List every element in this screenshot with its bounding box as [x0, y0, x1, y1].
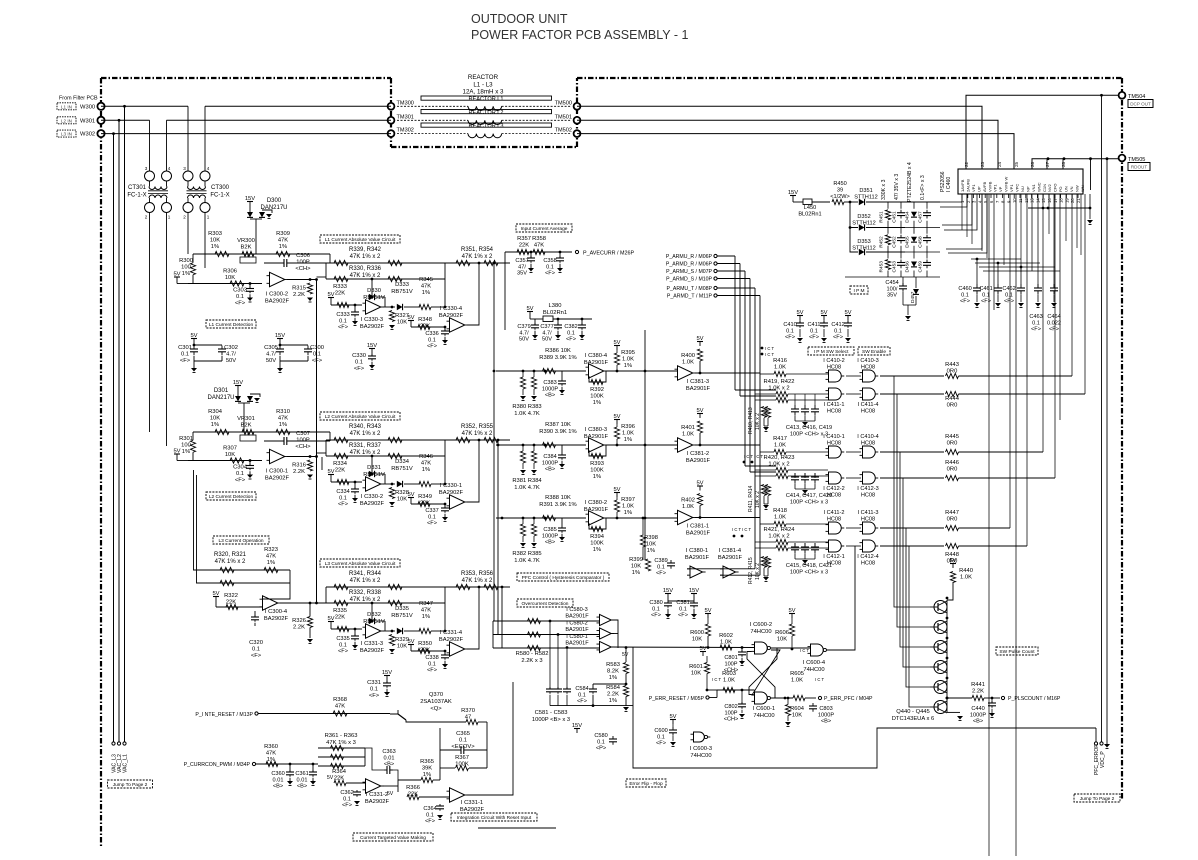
svg-text:C410: C410	[783, 322, 796, 328]
svg-text:22K: 22K	[420, 501, 430, 507]
svg-text:10K: 10K	[397, 644, 407, 650]
svg-text:R326: R326	[292, 618, 306, 624]
svg-text:10K: 10K	[210, 416, 220, 422]
svg-text:1000P: 1000P	[970, 712, 986, 718]
svg-text:I C331-1: I C331-1	[461, 800, 483, 806]
svg-text:R411, R414: R411, R414	[748, 485, 754, 512]
svg-text:1%: 1%	[279, 422, 287, 428]
svg-text:C389: C389	[654, 558, 667, 564]
svg-text:R331, R337: R331, R337	[349, 443, 382, 449]
svg-text:I C412-4: I C412-4	[857, 554, 878, 560]
svg-text:50V: 50V	[519, 337, 529, 343]
svg-text:R446: R446	[945, 460, 959, 466]
svg-text:R420, R423: R420, R423	[764, 455, 795, 461]
svg-text:1.0K 4.7K: 1.0K 4.7K	[514, 485, 540, 491]
svg-text:1%: 1%	[267, 560, 275, 566]
svg-text:2AUFB: 2AUFB	[965, 179, 970, 192]
svg-text:22K: 22K	[420, 648, 430, 654]
svg-text:C453: C453	[892, 261, 898, 273]
svg-text:D335: D335	[395, 606, 409, 612]
svg-text:TM300: TM300	[397, 100, 414, 106]
svg-text:TM301: TM301	[397, 114, 414, 120]
svg-text:P_ARMD_T / M11P: P_ARMD_T / M11P	[667, 294, 713, 300]
svg-text:BA2901F: BA2901F	[686, 531, 711, 537]
svg-text:18: 18	[1059, 198, 1064, 203]
svg-text:BL02Rn1: BL02Rn1	[543, 310, 567, 316]
svg-text:C414, C417, C420: C414, C417, C420	[786, 493, 832, 499]
svg-text:47K: 47K	[421, 461, 431, 467]
svg-text:L450: L450	[804, 205, 816, 211]
svg-text:I C380-3: I C380-3	[585, 427, 607, 433]
svg-text:R397: R397	[621, 497, 635, 503]
svg-text:<B>: <B>	[973, 719, 983, 725]
svg-text:10K x 2: 10K x 2	[755, 491, 761, 508]
svg-text:47K 1% x 2: 47K 1% x 2	[350, 431, 381, 437]
svg-text:0.1: 0.1	[339, 495, 347, 501]
svg-text:R389 3.9K 1%: R389 3.9K 1%	[539, 355, 576, 361]
svg-text:BA2902F: BA2902F	[439, 490, 464, 496]
svg-text:CT301: CT301	[128, 185, 147, 191]
svg-text:Q370: Q370	[429, 692, 443, 698]
svg-text:330K x 3: 330K x 3	[881, 179, 887, 200]
svg-text:50V: 50V	[266, 358, 276, 364]
svg-text:1%: 1%	[593, 400, 601, 406]
svg-text:R452: R452	[879, 236, 885, 248]
svg-text:R419, R422: R419, R422	[764, 379, 795, 385]
svg-text:22K: 22K	[408, 792, 418, 798]
svg-text:R330, R336: R330, R336	[349, 266, 382, 272]
svg-text:I C330-4: I C330-4	[440, 306, 463, 312]
svg-text:4.7/: 4.7/	[266, 352, 276, 358]
svg-text:R450: R450	[833, 181, 846, 187]
svg-text:BA2901F: BA2901F	[686, 386, 711, 392]
svg-text:C415, C418, C421: C415, C418, C421	[786, 563, 832, 569]
svg-text:47K 1% x 2: 47K 1% x 2	[462, 578, 493, 584]
svg-text:R358: R358	[532, 236, 546, 242]
svg-text:<CH>: <CH>	[295, 444, 311, 450]
svg-text:4.7/: 4.7/	[542, 330, 552, 336]
svg-text:0.1: 0.1	[428, 661, 436, 667]
svg-text:R316: R316	[292, 463, 306, 469]
svg-text:15: 15	[1041, 198, 1046, 203]
svg-text:100/: 100/	[887, 286, 898, 292]
svg-text:L3 Current Operation: L3 Current Operation	[218, 538, 263, 544]
svg-text:C304: C304	[233, 465, 248, 471]
svg-text:<F>: <F>	[338, 649, 348, 655]
svg-text:C412: C412	[831, 322, 844, 328]
svg-text:1000P: 1000P	[542, 533, 558, 539]
svg-text:C383: C383	[543, 380, 556, 386]
svg-text:I C600-4: I C600-4	[803, 660, 826, 666]
svg-text:74HC00: 74HC00	[803, 667, 824, 673]
svg-text:0.1: 0.1	[339, 642, 347, 648]
svg-text:1000P <B> x 3: 1000P <B> x 3	[532, 717, 570, 723]
svg-text:VN1: VN1	[1031, 183, 1036, 192]
svg-text:C581 - C583: C581 - C583	[535, 710, 568, 716]
svg-text:100P <CH> x 3: 100P <CH> x 3	[790, 500, 828, 506]
svg-text:<F>: <F>	[312, 358, 323, 364]
svg-text:C338: C338	[425, 655, 438, 661]
svg-text:FO: FO	[1058, 186, 1063, 192]
svg-text:R392: R392	[590, 387, 604, 393]
svg-text:D330: D330	[367, 288, 381, 294]
svg-text:10K x 2: 10K x 2	[755, 563, 761, 580]
svg-text:I C600-3: I C600-3	[690, 746, 712, 752]
svg-text:2.2K: 2.2K	[293, 625, 305, 631]
svg-text:C462: C462	[1002, 286, 1015, 292]
svg-text:R399: R399	[629, 557, 643, 563]
svg-text:2.2K x 3: 2.2K x 3	[521, 658, 542, 664]
svg-text:R361 - R363: R361 - R363	[325, 733, 358, 739]
svg-text:PFC Control ( Hysteresis Compa: PFC Control ( Hysteresis Comparator )	[522, 575, 605, 581]
svg-text:C301: C301	[178, 345, 192, 351]
svg-text:1%: 1%	[423, 772, 431, 778]
svg-text:BA2901F: BA2901F	[685, 555, 710, 561]
svg-text:R334: R334	[333, 461, 348, 467]
svg-text:<CH>: <CH>	[724, 717, 739, 723]
svg-text:Input Current Average: Input Current Average	[521, 226, 568, 232]
svg-text:D454: D454	[905, 211, 911, 223]
svg-text:I C411-2: I C411-2	[823, 510, 844, 516]
svg-text:3: 3	[145, 166, 148, 171]
svg-text:C335: C335	[336, 636, 349, 642]
svg-text:C801: C801	[724, 655, 737, 661]
svg-text:R323: R323	[264, 547, 278, 553]
svg-text:<F>: <F>	[427, 668, 437, 674]
svg-text:R370: R370	[461, 708, 475, 714]
svg-text:R368: R368	[333, 697, 347, 703]
svg-text:NP: NP	[1025, 186, 1030, 192]
svg-text:R602: R602	[719, 633, 733, 639]
svg-text:1.0K: 1.0K	[723, 678, 735, 684]
svg-text:P_ARMD_R / M06P: P_ARMD_R / M06P	[666, 262, 713, 268]
svg-text:I C300-4: I C300-4	[265, 609, 288, 615]
svg-text:35V: 35V	[887, 293, 897, 299]
svg-text:1.0K: 1.0K	[622, 431, 634, 437]
svg-text:R603: R603	[722, 671, 736, 677]
svg-text:<Q>: <Q>	[430, 706, 442, 712]
svg-text:I C410-3: I C410-3	[857, 358, 878, 364]
svg-text:C302: C302	[224, 345, 238, 351]
svg-text:1%: 1%	[624, 363, 632, 369]
svg-text:HC08: HC08	[861, 516, 875, 522]
svg-text:UN: UN	[1064, 186, 1069, 192]
svg-text:P_CURRCON_PWM / M34P: P_CURRCON_PWM / M34P	[184, 762, 251, 768]
svg-text:1%: 1%	[211, 422, 219, 428]
svg-text:22K: 22K	[335, 291, 345, 297]
svg-text:REACTOR L3: REACTOR L3	[468, 124, 503, 130]
svg-text:C364: C364	[423, 806, 436, 812]
svg-text:<F>: <F>	[785, 335, 795, 341]
svg-text:C377: C377	[540, 324, 553, 330]
svg-text:VN: VN	[1069, 186, 1074, 192]
svg-text:12: 12	[1024, 198, 1029, 203]
svg-text:<F>: <F>	[235, 301, 246, 307]
svg-text:C385: C385	[543, 527, 556, 533]
svg-text:100K: 100K	[590, 468, 604, 474]
svg-text:26: 26	[1030, 161, 1035, 167]
svg-text:C454: C454	[885, 280, 898, 286]
svg-text:<F>: <F>	[425, 819, 435, 825]
svg-text:BA2902F: BA2902F	[264, 616, 289, 622]
svg-text:R307: R307	[223, 446, 237, 452]
svg-text:1.0K x 2: 1.0K x 2	[768, 462, 789, 468]
svg-text:R348: R348	[418, 317, 432, 323]
svg-text:R447: R447	[945, 510, 959, 516]
svg-text:<F>: <F>	[427, 344, 437, 350]
svg-text:R441: R441	[971, 682, 985, 688]
svg-text:<F>: <F>	[427, 521, 437, 527]
svg-text:VPC: VPC	[1015, 184, 1020, 192]
svg-text:1.0K 4.7K: 1.0K 4.7K	[514, 411, 540, 417]
svg-text:R322: R322	[224, 593, 238, 599]
svg-text:10: 10	[1012, 198, 1017, 203]
svg-text:W302: W302	[80, 132, 95, 138]
svg-text:22K: 22K	[334, 776, 344, 782]
svg-text:R353, R356: R353, R356	[461, 571, 494, 577]
svg-text:STTH112: STTH112	[852, 246, 876, 252]
svg-text:DAN217U: DAN217U	[207, 395, 234, 401]
svg-text:47K 1% x 2: 47K 1% x 2	[350, 450, 381, 456]
svg-text:47K 1% x 2: 47K 1% x 2	[350, 254, 381, 260]
svg-text:47: 47	[465, 715, 471, 721]
svg-text:C384: C384	[543, 454, 556, 460]
svg-text:1%: 1%	[422, 467, 430, 473]
svg-text:I C331-3: I C331-3	[361, 641, 383, 647]
svg-text:R332, R338: R332, R338	[349, 590, 382, 596]
svg-text:W300: W300	[80, 104, 95, 110]
svg-text:<F>: <F>	[809, 335, 819, 341]
svg-text:BA2901F: BA2901F	[565, 614, 589, 620]
svg-text:47K 1% x 2: 47K 1% x 2	[462, 431, 493, 437]
svg-text:SW Pulse Count: SW Pulse Count	[999, 649, 1035, 655]
svg-text:HC08: HC08	[861, 492, 875, 498]
svg-text:16: 16	[1047, 198, 1052, 203]
svg-text:74HC00: 74HC00	[750, 629, 771, 635]
svg-text:C461: C461	[979, 286, 992, 292]
svg-text:0.1: 0.1	[786, 328, 794, 334]
svg-text:NU: NU	[1020, 186, 1025, 192]
svg-text:R605: R605	[790, 671, 804, 677]
svg-text:I C600-1: I C600-1	[753, 706, 775, 712]
svg-text:R335: R335	[333, 608, 347, 614]
svg-text:11: 11	[1018, 198, 1023, 203]
svg-text:R320, R321: R320, R321	[214, 552, 247, 558]
svg-text:REACTOR: REACTOR	[468, 74, 499, 81]
svg-text:1%: 1%	[182, 271, 190, 277]
svg-text:0.01: 0.01	[297, 777, 308, 783]
svg-text:20: 20	[1070, 198, 1075, 203]
svg-text:C460: C460	[958, 286, 971, 292]
svg-text:C361: C361	[295, 771, 308, 777]
svg-text:I C412-1: I C412-1	[823, 554, 844, 560]
svg-text:47K 1% x 2: 47K 1% x 2	[350, 597, 381, 603]
svg-text:I P M SW Select: I P M SW Select	[814, 349, 849, 355]
svg-text:0.1: 0.1	[252, 647, 260, 653]
svg-text:39K: 39K	[422, 766, 432, 772]
svg-text:BA2902F: BA2902F	[365, 799, 390, 805]
svg-text:100P <CH> x 3: 100P <CH> x 3	[790, 570, 828, 576]
svg-text:BA2901F: BA2901F	[686, 458, 711, 464]
svg-text:I C412-2: I C412-2	[823, 486, 844, 492]
svg-text:1: 1	[168, 215, 171, 220]
svg-text:I C411-4: I C411-4	[857, 402, 878, 408]
svg-text:P_ARMU_T / M08P: P_ARMU_T / M08P	[667, 286, 713, 292]
svg-text:10K: 10K	[692, 637, 702, 643]
svg-text:10K: 10K	[225, 275, 235, 281]
svg-text:R402: R402	[681, 498, 695, 504]
svg-text:47/ 35V x 3: 47/ 35V x 3	[894, 174, 900, 200]
svg-text:C334: C334	[336, 489, 349, 495]
svg-text:R347: R347	[419, 601, 433, 607]
svg-text:R352, R355: R352, R355	[461, 424, 494, 430]
svg-text:STTH112: STTH112	[852, 221, 876, 227]
svg-text:<F>: <F>	[1004, 299, 1014, 305]
svg-text:1%: 1%	[422, 614, 430, 620]
svg-text:47/: 47/	[518, 264, 526, 270]
svg-text:AVFB: AVFB	[982, 182, 987, 192]
svg-text:0.1: 0.1	[657, 564, 665, 570]
svg-text:0.1: 0.1	[834, 328, 842, 334]
svg-text:24: 24	[997, 161, 1002, 167]
svg-text:TM502: TM502	[555, 128, 572, 134]
svg-text:<F>: <F>	[251, 653, 262, 659]
svg-text:0.1: 0.1	[961, 292, 969, 298]
svg-text:C452: C452	[892, 236, 898, 248]
svg-text:VP1: VP1	[993, 184, 998, 192]
svg-text:R340, R343: R340, R343	[349, 424, 382, 430]
svg-text:VP1: VP1	[971, 184, 976, 192]
svg-text:<P>: <P>	[596, 746, 606, 752]
svg-text:BA2902F: BA2902F	[360, 501, 385, 507]
svg-text:R366: R366	[406, 785, 420, 791]
svg-text:100: 100	[181, 265, 191, 271]
svg-text:3: 3	[183, 166, 186, 171]
svg-text:0.01: 0.01	[384, 755, 395, 761]
svg-text:I C T: I C T	[712, 677, 721, 682]
svg-text:VR301: VR301	[237, 416, 255, 422]
svg-text:22K: 22K	[519, 243, 529, 249]
svg-text:C600: C600	[654, 728, 667, 734]
svg-text:C464: C464	[1047, 314, 1060, 320]
svg-text:<F>: <F>	[577, 699, 587, 705]
svg-text:100P <CH> x 3: 100P <CH> x 3	[790, 432, 828, 438]
svg-text:C358: C358	[543, 258, 556, 264]
svg-text:L380: L380	[549, 303, 562, 309]
svg-text:BA2901F: BA2901F	[565, 627, 589, 633]
svg-text:BL02Rn1: BL02Rn1	[798, 212, 821, 218]
svg-text:R339, R342: R339, R342	[349, 247, 382, 253]
svg-text:I C330-3: I C330-3	[361, 317, 383, 323]
svg-text:47K: 47K	[266, 751, 276, 757]
svg-text:R357: R357	[517, 236, 531, 242]
svg-text:10K: 10K	[397, 320, 407, 326]
svg-text:5V: 5V	[327, 775, 334, 781]
svg-text:I C T: I C T	[815, 677, 824, 682]
svg-text:W301: W301	[80, 118, 95, 124]
svg-text:R453: R453	[879, 261, 885, 273]
svg-text:1.0K: 1.0K	[791, 678, 803, 684]
svg-text:10K: 10K	[646, 542, 656, 548]
svg-text:I C380-1: I C380-1	[686, 548, 708, 554]
svg-text:0.1: 0.1	[426, 812, 434, 818]
svg-text:R396: R396	[621, 424, 635, 430]
svg-text:R604: R604	[790, 706, 805, 712]
svg-text:<F>: <F>	[369, 693, 380, 699]
svg-text:BA2901F: BA2901F	[584, 507, 609, 513]
svg-text:50V: 50V	[226, 358, 236, 364]
svg-text:C365: C365	[456, 731, 470, 737]
svg-text:<F>: <F>	[960, 299, 970, 305]
svg-text:I C380-4: I C380-4	[585, 353, 608, 359]
svg-text:R349: R349	[418, 494, 432, 500]
svg-text:0.1: 0.1	[236, 471, 244, 477]
svg-text:BA2902F: BA2902F	[265, 476, 290, 482]
svg-text:VP: VP	[998, 186, 1003, 192]
svg-text:C330: C330	[352, 353, 366, 359]
svg-text:C580: C580	[594, 733, 607, 739]
svg-text:47K: 47K	[278, 238, 288, 244]
svg-text:I C460: I C460	[946, 177, 952, 192]
svg-text:P_ARMD_S / M10P: P_ARMD_S / M10P	[666, 277, 712, 283]
svg-text:R394: R394	[590, 534, 605, 540]
svg-text:R390 3.9K 1%: R390 3.9K 1%	[539, 429, 576, 435]
svg-text:R387 10K: R387 10K	[545, 422, 571, 428]
svg-text:C440: C440	[971, 706, 984, 712]
svg-text:0R0: 0R0	[947, 441, 958, 447]
svg-text:1%: 1%	[422, 290, 430, 296]
svg-text:VP1: VP1	[1009, 184, 1014, 192]
svg-text:C333: C333	[336, 312, 349, 318]
svg-text:C584: C584	[575, 686, 588, 692]
svg-text:R445: R445	[945, 434, 959, 440]
svg-text:1.0K: 1.0K	[960, 575, 972, 581]
svg-text:R418: R418	[773, 508, 787, 514]
svg-text:35V: 35V	[517, 271, 527, 277]
svg-text:C458: C458	[918, 236, 924, 248]
svg-text:C1N: C1N	[1042, 184, 1047, 192]
svg-text:CT300: CT300	[211, 185, 230, 191]
svg-text:28: 28	[1061, 161, 1066, 167]
svg-text:RB751V: RB751V	[391, 466, 413, 472]
svg-text:C380: C380	[649, 600, 662, 606]
svg-text:B2K: B2K	[241, 423, 252, 429]
svg-text:B2K: B2K	[241, 245, 252, 251]
svg-text:L3 Current Absolute Value Circ: L3 Current Absolute Value Circuit	[325, 561, 396, 567]
svg-text:<F>: <F>	[338, 325, 348, 331]
svg-text:I C330-2: I C330-2	[361, 494, 383, 500]
svg-text:0R0: 0R0	[947, 403, 958, 409]
svg-text:R583: R583	[606, 662, 620, 668]
svg-text:BA2902F: BA2902F	[439, 313, 464, 319]
svg-text:1000P: 1000P	[542, 460, 558, 466]
svg-text:POWER FACTOR PCB ASSEMBLY - 1: POWER FACTOR PCB ASSEMBLY - 1	[471, 28, 688, 42]
svg-text:R304: R304	[208, 409, 223, 415]
svg-text:RB751V: RB751V	[391, 613, 413, 619]
svg-text:I C412-3: I C412-3	[857, 486, 878, 492]
svg-text:0.1: 0.1	[679, 606, 687, 612]
svg-text:Overcurrent Detection: Overcurrent Detection	[522, 601, 569, 607]
svg-text:R309: R309	[276, 231, 290, 237]
svg-text:10K: 10K	[691, 671, 701, 677]
svg-text:1000P: 1000P	[542, 386, 558, 392]
svg-text:100P: 100P	[296, 260, 310, 266]
svg-text:R306: R306	[223, 269, 237, 275]
svg-text:0.1: 0.1	[1032, 320, 1040, 326]
svg-text:1%: 1%	[593, 474, 601, 480]
svg-text:C459: C459	[918, 261, 924, 273]
svg-text:1: 1	[207, 215, 210, 220]
